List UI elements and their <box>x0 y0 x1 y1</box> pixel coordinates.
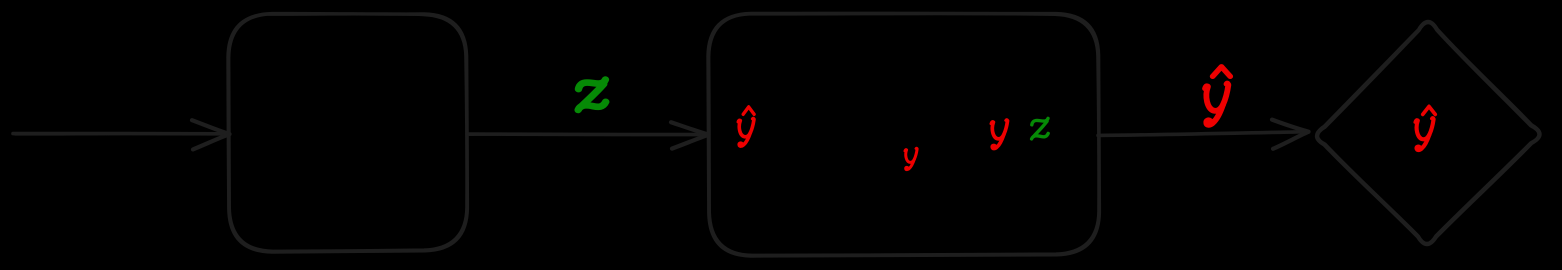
wire: input arrow shaft <box>13 133 224 134</box>
label y-hat (red) above output arrow <box>1204 67 1230 125</box>
y-hat arrow head <box>1272 120 1309 149</box>
label z (green, bold) above z arrow <box>578 80 606 110</box>
glyph y-hat (red) inside diamond <box>1415 106 1435 150</box>
box: encoder (rounded square) <box>228 14 467 252</box>
wire: y-hat arrow shaft <box>1098 132 1302 136</box>
box: decoder / argmax (rounded rectangle) <box>708 13 1099 256</box>
glyph y subscript (red) inside box 2 <box>905 148 917 170</box>
glyph z (green) inside box 2 <box>1032 118 1049 138</box>
z arrow head <box>671 122 709 148</box>
input arrow head <box>192 120 230 149</box>
glyph y (red) inside box 2 <box>991 120 1008 149</box>
diamond: output decision <box>1317 21 1541 244</box>
wire: z arrow shaft <box>467 132 703 136</box>
glyph y-hat (red) inside box 2 <box>738 107 754 146</box>
